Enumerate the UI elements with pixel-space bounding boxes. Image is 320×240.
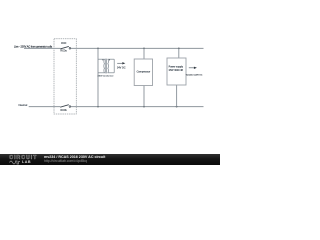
wire live rail left segment: [24, 47, 60, 49]
junction dot bottom at compressor: [143, 106, 145, 108]
wire neutral rail left segment: [29, 106, 61, 108]
svg-text:24V DC: 24V DC: [117, 66, 126, 69]
svg-text:RCDa: RCDa: [60, 51, 67, 53]
svg-text:RCD: RCD: [61, 43, 66, 45]
junction dot top at transformer: [97, 48, 99, 50]
core lines: [105, 59, 108, 74]
svg-text:RSP 3000 48: RSP 3000 48: [169, 69, 184, 72]
svg-text:Compressor: Compressor: [137, 71, 151, 74]
phase dot secondary: [109, 59, 110, 60]
wire primary lead vertical: [97, 48, 99, 106]
primary bottom stub: [98, 72, 105, 74]
phase dot primary: [102, 59, 103, 60]
secondary winding: [107, 59, 110, 73]
logo waveform: [9, 161, 20, 164]
junction dot top at compressor: [143, 48, 145, 50]
enclosure dashed box (RCD unit): [54, 39, 76, 114]
junction dot bottom at power supply: [176, 106, 178, 108]
transformer T1: [98, 48, 114, 106]
wire power supply top: [178, 48, 180, 58]
primary top stub: [98, 58, 105, 60]
junction dot bottom at transformer: [97, 106, 99, 108]
svg-text:Power supply: Power supply: [169, 66, 184, 69]
block power supply: [167, 58, 186, 85]
svg-text:230V transformer: 230V transformer: [97, 74, 113, 77]
switch SW1 (RCD live pole): [60, 43, 70, 53]
switch SW2 (RCD neutral pole): [60, 105, 70, 112]
secondary lead vertical: [113, 59, 115, 73]
wire power supply bottom: [176, 85, 178, 107]
wire compressor bottom: [143, 86, 145, 107]
svg-text:Neutral: Neutral: [19, 103, 28, 107]
arrow variable output: [186, 67, 203, 77]
wire compressor top: [143, 48, 145, 59]
footer bar: [0, 154, 220, 165]
arrow 24V output: [117, 62, 126, 69]
wire live rail right segment: [71, 47, 204, 49]
junction dot top at power supply: [178, 48, 180, 50]
secondary top stub: [108, 58, 115, 60]
wire neutral rail right segment: [71, 106, 204, 108]
logo CircuitLab: [9, 155, 37, 161]
primary winding: [103, 59, 106, 73]
svg-text:Variable 0-48V DC: Variable 0-48V DC: [186, 75, 203, 77]
svg-text:RCDb: RCDb: [60, 110, 67, 112]
secondary bottom stub: [108, 72, 115, 74]
block compressor: [134, 59, 152, 86]
footer title: [44, 155, 105, 159]
footer url: [44, 159, 87, 163]
